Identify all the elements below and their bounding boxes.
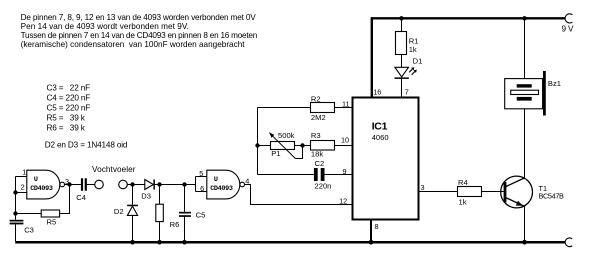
svg-text:Pen 14 van de 4093 wordt verbo: Pen 14 van de 4093 wordt verbonden met 9… (21, 22, 189, 31)
wire R6 branch bottom (159, 222, 161, 241)
svg-text:3: 3 (421, 183, 425, 192)
svg-text:1: 1 (22, 168, 26, 177)
wire R6 branch top (159, 185, 161, 205)
terminal sensor left (95, 180, 104, 189)
svg-text:18k: 18k (311, 149, 323, 158)
resistor R2 (311, 94, 335, 122)
wire loop vertical (257, 108, 259, 175)
svg-text:CD4093: CD4093 (30, 185, 53, 193)
resistor R1 (396, 32, 419, 55)
wire rail to R1 (401, 19, 403, 32)
node gate1 out (67, 182, 71, 186)
terminal sensor right (119, 180, 128, 189)
wire emitter to ground (524, 206, 526, 241)
wire C2 row left (258, 174, 314, 176)
gate U1b CD4093 body (207, 170, 245, 199)
transistor T1 (501, 176, 564, 208)
wire gate1 out to C4 (65, 184, 81, 186)
svg-text:D3: D3 (141, 192, 151, 201)
wire D2 branch top (132, 185, 134, 205)
svg-text:C3 = 22 nF: C3 = 22 nF (47, 83, 91, 92)
svg-text:4: 4 (245, 176, 249, 185)
node emitter ground (522, 240, 527, 245)
svg-text:16: 16 (373, 88, 381, 97)
wire C5 branch bottom (184, 217, 186, 241)
svg-text:8: 8 (375, 222, 379, 231)
svg-text:P1: P1 (271, 149, 280, 158)
svg-text:U: U (214, 176, 218, 184)
wire R4 to base (482, 191, 504, 193)
svg-text:R5 = 39 k: R5 = 39 k (47, 114, 86, 123)
wire R3 to pin10 (335, 145, 353, 147)
wire D2 branch bottom (132, 215, 134, 241)
buzzer Bz1 (505, 71, 561, 116)
capacitor C4 (76, 178, 87, 202)
node pin2 tie (13, 190, 17, 194)
svg-text:4060: 4060 (372, 133, 389, 142)
terminal 9V arc (565, 14, 572, 23)
svg-text:R6 = 39 k: R6 = 39 k (47, 124, 86, 133)
diode D2 (114, 205, 138, 216)
svg-text:220n: 220n (315, 181, 332, 190)
resistor R6 (156, 204, 180, 229)
wire C5 branch top (184, 185, 186, 212)
svg-text:2: 2 (21, 182, 25, 191)
svg-text:9 V: 9 V (562, 25, 575, 34)
svg-text:BC547B: BC547B (539, 192, 565, 201)
node R6 top (157, 182, 161, 186)
resistor R3 (311, 131, 335, 158)
wire R1 to D1 (401, 55, 403, 68)
note text block (21, 13, 258, 49)
svg-text:Vochtvoeler: Vochtvoeler (92, 165, 136, 174)
svg-text:C3: C3 (24, 226, 34, 235)
node R6 ground (157, 240, 162, 245)
svg-text:3: 3 (65, 177, 69, 186)
svg-text:R6: R6 (170, 220, 180, 229)
svg-text:1k: 1k (409, 45, 417, 54)
wire gate2 out to pin12 (245, 185, 352, 205)
wire P1 to R3 (294, 145, 311, 147)
svg-text:C5 = 220 nF: C5 = 220 nF (47, 104, 91, 113)
svg-text:R2: R2 (311, 94, 321, 103)
node R1 top (399, 16, 403, 20)
wire ground rail (15, 241, 565, 244)
svg-text:2M2: 2M2 (311, 113, 326, 122)
wire R5 row right riser (60, 185, 70, 214)
svg-text:(keramische) condensatoren va: (keramische) condensatoren van 100nF wor… (21, 40, 246, 49)
svg-text:R1: R1 (409, 36, 419, 45)
node C5 top (182, 182, 186, 186)
node buzzer top (522, 16, 526, 20)
svg-text:R4: R4 (458, 178, 468, 187)
node P1 left (255, 143, 259, 147)
diode D3 (141, 180, 155, 201)
node P1 wiper (300, 143, 304, 147)
IC U1 4060 box (353, 98, 419, 220)
svg-text:Tussen de pinnen 7 en 14 van d: Tussen de pinnen 7 en 14 van de CD4093 e… (21, 31, 258, 40)
wire P1 row left (258, 145, 271, 147)
terminal ground arc (565, 238, 572, 247)
svg-text:IC1: IC1 (372, 120, 388, 132)
node C5 ground (182, 240, 187, 245)
svg-text:D2 en D3 = 1N4148 oid: D2 en D3 = 1N4148 oid (45, 141, 128, 150)
svg-text:C4 = 220 nF: C4 = 220 nF (47, 93, 91, 102)
svg-text:CD4093: CD4093 (210, 185, 233, 193)
svg-text:C4: C4 (76, 193, 86, 202)
svg-text:R3: R3 (311, 131, 321, 140)
svg-text:De pinnen 7, 8, 9, 12 en 13 va: De pinnen 7, 8, 9, 12 en 13 van de 4093 … (21, 13, 257, 22)
wire gate1 pin2 (16, 192, 27, 194)
resistor R4 (458, 178, 482, 206)
node D2 ground (130, 240, 135, 245)
node R5 left (13, 211, 17, 215)
LED D1 (395, 56, 423, 79)
svg-text:U: U (34, 176, 38, 184)
svg-text:Bz1: Bz1 (548, 79, 561, 88)
wire R5 row left (16, 213, 42, 215)
wire C4 to sensor (87, 184, 95, 186)
wire top 9V rail (371, 17, 565, 19)
capacitor C2 (314, 159, 332, 190)
wire sensor to D3 (127, 184, 145, 186)
wire pin16 riser (371, 17, 373, 96)
wire gate1 input tie (15, 177, 17, 220)
node D2 top (130, 182, 134, 186)
wire gate2 input tie (185, 177, 207, 192)
parts list (47, 83, 91, 132)
svg-text:500k: 500k (278, 131, 295, 140)
gate U1a CD4093 body (27, 170, 65, 199)
node pin8 ground (369, 240, 374, 245)
svg-text:10: 10 (341, 135, 349, 144)
wire R2 row left (258, 107, 311, 109)
wire D3 to gate2 (155, 184, 185, 186)
svg-text:11: 11 (342, 99, 350, 108)
wire collector to buzzer (524, 109, 526, 178)
svg-text:D2: D2 (114, 207, 124, 216)
resistor R5 (41, 210, 59, 226)
wire C2 to pin9 (325, 174, 353, 176)
svg-text:C5: C5 (196, 210, 206, 219)
wire pin3 to R4 (419, 191, 458, 193)
svg-text:C2: C2 (315, 159, 325, 168)
wire C3 to ground (15, 224, 17, 241)
wire R2 row right (335, 107, 353, 109)
wire D1 to pin7 (401, 79, 403, 97)
svg-text:1k: 1k (459, 197, 467, 206)
svg-text:D1: D1 (413, 56, 423, 65)
wire gate1 pin1 (16, 176, 27, 178)
svg-text:R5: R5 (47, 217, 57, 226)
capacitor C5 (179, 210, 205, 219)
potentiometer P1 (269, 131, 303, 158)
svg-text:7: 7 (405, 88, 409, 97)
capacitor C3 (10, 220, 34, 235)
wire rail to buzzer (524, 19, 526, 79)
wire pin8 (370, 220, 372, 242)
